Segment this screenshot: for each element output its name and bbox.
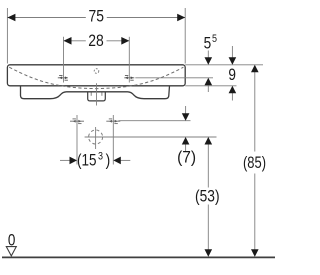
svg-text:9: 9 (228, 66, 236, 84)
dimension (7): label (177, 148, 196, 166)
dimension 28: dimension line (64, 37, 130, 45)
svg-text:28: 28 (88, 32, 104, 50)
floor line (2, 256, 275, 258)
fixing hole left (lower view) (70, 119, 84, 124)
bowl hidden contour (dashed) (9, 67, 183, 88)
dimension (85): vertical line with arrows (251, 65, 259, 257)
drain level line to the right (85, 136, 217, 138)
dimension 5.5: lower arrow (up) at tap-hole line (205, 78, 213, 92)
apron / skirt outline (21, 86, 170, 99)
svg-text:5: 5 (212, 33, 217, 45)
dimension 5.5: second upper arrow for 9 (down) (229, 46, 237, 65)
washbasin deck outline (7, 65, 185, 86)
dimension 5.5: upper arrow (down) (205, 51, 213, 65)
tap-hole level extension line to the right (135, 77, 213, 79)
dimension 9: lower arrow (up) at deck bottom line (229, 86, 237, 101)
extension line from left fixing hole down (76, 115, 78, 165)
svg-text:(15: (15 (77, 152, 97, 170)
dimension 9: label (228, 66, 236, 84)
overflow hole (dashed circle) (94, 69, 99, 74)
extension line from right fixing hole down (112, 115, 114, 165)
svg-text:75: 75 (89, 8, 105, 26)
datum triangle (6, 247, 16, 256)
dimension 28: extension lines (64, 37, 130, 83)
dimension (85): label (243, 154, 266, 172)
svg-text:5: 5 (204, 34, 212, 52)
svg-text:3: 3 (98, 151, 103, 163)
deck bottom extension line to the right (185, 85, 236, 87)
datum 0 label (8, 232, 16, 250)
dimension (7): upper arrow (down) (182, 106, 190, 121)
tap hole right (124, 76, 134, 81)
dimension (53): vertical line with arrows (205, 137, 213, 257)
deck top extension line to the right (185, 64, 263, 66)
drain box (88, 92, 106, 101)
dimension (15.3): label (77, 151, 110, 170)
dimension (15.3): arrows outside (60, 157, 130, 165)
dimension (53): label (195, 188, 220, 206)
svg-text:(85): (85) (243, 154, 266, 172)
fixing hole right (lower view) (106, 119, 120, 124)
dimension 75: extension lines (7, 8, 185, 64)
dimension 5.5: label (204, 33, 217, 52)
fixing-hole level line to the right (119, 120, 191, 122)
tap hole left (58, 76, 68, 81)
dimension 75: dimension line (7, 14, 185, 22)
svg-text:): ) (106, 152, 111, 170)
svg-text:(7): (7) (177, 148, 196, 166)
dimension (7): lower arrow (up) (182, 137, 190, 151)
drain connection (dashed circle with centerlines) (89, 127, 103, 149)
dimension 28: label (88, 32, 104, 50)
dimension 75: label (89, 8, 105, 26)
centerline through drain box (96, 83, 98, 105)
svg-text:(53): (53) (195, 188, 220, 206)
